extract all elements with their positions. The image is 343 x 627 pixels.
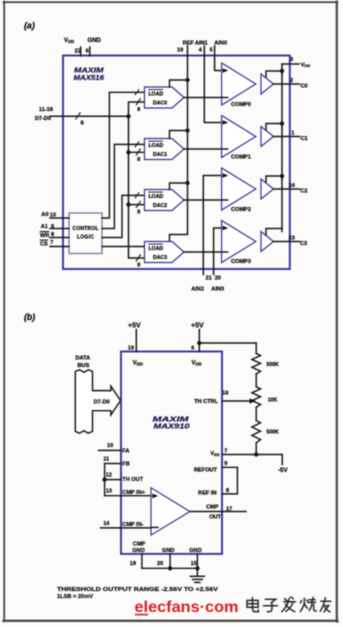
svg-text:-5V: -5V	[278, 467, 289, 474]
svg-text:CMP: CMP	[206, 505, 219, 511]
svg-text:16: 16	[222, 390, 228, 396]
junction dot rail B1	[280, 121, 284, 125]
svg-text:9: 9	[224, 461, 227, 467]
svg-text:A0: A0	[41, 212, 48, 218]
svg-text:7: 7	[50, 240, 53, 246]
char you	[320, 598, 331, 612]
junction dot bracket	[102, 477, 106, 481]
pin GND 15	[189, 548, 201, 568]
svg-text:+5V: +5V	[191, 323, 204, 330]
wire REF tap DAC2	[170, 183, 188, 190]
wire data branch DAC1	[129, 151, 145, 153]
comparator COMP1	[222, 116, 256, 161]
svg-text:4: 4	[199, 47, 203, 53]
pin VDD 22 (a)	[64, 38, 81, 56]
junction dot rail B0	[280, 69, 284, 73]
wire VDD rail	[281, 64, 283, 229]
svg-text:VDD: VDD	[192, 361, 202, 367]
wire D7-D0 data bus horizontal	[50, 113, 129, 127]
wire DAC0 output to COMP0	[184, 97, 222, 99]
wire data branch DAC2	[129, 204, 145, 206]
svg-text:VDD: VDD	[301, 62, 311, 68]
svg-text:OUT: OUT	[209, 514, 221, 520]
svg-text:5: 5	[210, 47, 213, 53]
svg-text:GND: GND	[88, 38, 102, 44]
pin TH OUT 12	[105, 472, 144, 483]
junction dot REF-DAC2 tap	[185, 181, 189, 185]
pin AIN3 20	[211, 276, 224, 293]
control logic U2	[69, 213, 102, 254]
svg-text:BUS: BUS	[78, 363, 90, 369]
svg-text:WR: WR	[40, 233, 49, 239]
svg-text:2: 2	[290, 78, 293, 84]
pin CMP IN+ 13	[105, 489, 151, 496]
pin GND 6 (a)	[86, 38, 102, 56]
load tick DAC0	[135, 90, 139, 95]
svg-text:LOAD: LOAD	[149, 92, 164, 98]
comparator COMP0	[222, 63, 256, 108]
svg-text:C1: C1	[301, 136, 308, 142]
svg-text:15: 15	[191, 561, 197, 567]
svg-text:DAC3: DAC3	[153, 255, 167, 261]
wire R3 bottom	[255, 443, 257, 455]
svg-text:7: 7	[224, 448, 227, 454]
wire control out1 to DAC0 LOAD	[102, 92, 145, 218]
svg-text:FB: FB	[122, 461, 129, 467]
svg-text:GND: GND	[132, 548, 144, 554]
svg-text:19: 19	[128, 346, 134, 352]
svg-text:11: 11	[103, 456, 109, 462]
DAC1 U4	[145, 139, 185, 160]
node D7-D0 bus pins 11-18	[35, 107, 53, 122]
svg-text:FA: FA	[122, 448, 129, 454]
wire REFOUT to REF IN loop	[222, 467, 237, 494]
pin REFOUT 9	[194, 461, 227, 474]
svg-text:D7-D0: D7-D0	[94, 399, 110, 405]
load tick DAC1	[135, 142, 139, 147]
svg-text:22: 22	[75, 49, 81, 55]
pin A0 10	[41, 212, 69, 219]
svg-text:COMP2: COMP2	[231, 207, 251, 213]
svg-text:MAX910: MAX910	[154, 424, 190, 431]
power -5V	[278, 455, 289, 475]
wire DAC1 output to COMP1	[184, 148, 222, 150]
junction dot +5V	[197, 341, 201, 345]
buffer B2	[261, 179, 274, 199]
junction dot gnd 15	[195, 566, 199, 570]
svg-text:12: 12	[106, 472, 112, 478]
watermark chinese 电子发烧友	[247, 597, 331, 612]
IC box U7 MAX910	[121, 352, 222, 554]
svg-text:LOAD: LOAD	[149, 246, 164, 252]
svg-text:REFOUT: REFOUT	[194, 468, 218, 474]
pullup loop B2	[266, 176, 282, 182]
bus slash 8 DAC0	[136, 99, 140, 113]
wire ground bus	[142, 567, 198, 569]
svg-text:LOGIC: LOGIC	[77, 235, 94, 241]
svg-text:VEE: VEE	[210, 451, 219, 457]
svg-text:A1: A1	[41, 224, 48, 230]
junction dot D7-D0	[126, 114, 130, 118]
svg-text:LOAD: LOAD	[149, 143, 164, 149]
pin C1 1	[274, 131, 308, 142]
svg-text:CMP: CMP	[133, 541, 146, 547]
pin VEE 7	[210, 448, 282, 457]
comparator U7 internal	[151, 488, 190, 535]
resistor R1 500K	[252, 354, 279, 374]
DAC3 U6	[145, 242, 185, 263]
wire R1-R2	[255, 374, 257, 387]
pin FB 11	[103, 456, 130, 467]
wire DAC3 output to COMP3	[184, 251, 222, 253]
wire DAC2 output to COMP2	[184, 199, 222, 201]
svg-text:14: 14	[103, 521, 110, 527]
svg-text:COMP0: COMP0	[231, 102, 251, 108]
wire control out3 to DAC2 LOAD	[102, 195, 145, 237]
DAC2 U5	[145, 190, 185, 211]
pin FA 10	[99, 443, 130, 454]
svg-text:C0: C0	[301, 84, 308, 90]
junction dot DAC2 data	[126, 202, 130, 206]
wire CMP OUT	[190, 511, 246, 513]
junction dot chain bottom	[254, 452, 258, 456]
svg-text:18: 18	[130, 561, 136, 567]
pin GND 20	[157, 548, 174, 568]
wire AIN0	[215, 46, 222, 71]
comparator COMP2	[222, 168, 256, 213]
svg-text:DAC2: DAC2	[153, 203, 167, 209]
char dian	[247, 598, 258, 612]
pullup loop B3	[266, 229, 282, 235]
pullup loop B1	[266, 124, 282, 130]
svg-text:3: 3	[290, 57, 293, 63]
pin AIN2 21	[191, 276, 212, 293]
svg-text:13: 13	[106, 489, 112, 495]
pin TH CTRL 16	[194, 390, 256, 405]
wire chain top	[255, 343, 257, 354]
node AIN0 pin 5	[210, 40, 227, 53]
svg-text:COMP3: COMP3	[231, 259, 251, 265]
buffer B3	[261, 232, 274, 252]
junction dot rail B2	[280, 174, 284, 178]
svg-text:AIN0: AIN0	[214, 40, 227, 46]
svg-text:CMP IN-: CMP IN-	[122, 522, 143, 528]
wire AIN2 riser	[203, 176, 221, 275]
wire AIN1	[204, 46, 221, 123]
bus slash 8 DAC2	[136, 201, 140, 215]
svg-text:11-18: 11-18	[39, 107, 53, 113]
svg-text:C3: C3	[300, 241, 307, 247]
pin WR 8	[40, 232, 69, 239]
svg-text:500K: 500K	[266, 429, 279, 435]
svg-text:elecfans·com: elecfans·com	[135, 599, 239, 616]
border frame	[3, 2, 5, 622]
power +5V pin 19	[128, 323, 141, 352]
svg-text:20: 20	[215, 276, 221, 282]
svg-text:8: 8	[137, 263, 140, 269]
junction dot gnd 20	[168, 566, 172, 570]
svg-text:CS: CS	[40, 241, 48, 247]
wire REF tap DAC0	[170, 80, 188, 87]
wire control out4 to DAC3 LOAD	[102, 246, 145, 248]
comparator COMP3	[222, 221, 256, 265]
resistor R2 10K	[252, 387, 278, 407]
node REF pin 19	[177, 40, 194, 53]
svg-text:MAXIM: MAXIM	[74, 66, 105, 75]
svg-text:DAC0: DAC0	[153, 101, 167, 107]
junction dot REF-DAC1 tap	[185, 128, 189, 132]
svg-text:MAXIM: MAXIM	[153, 414, 191, 423]
svg-text:8: 8	[81, 121, 84, 127]
buffer B0	[261, 74, 274, 94]
wire R2-R3	[255, 407, 257, 420]
load tick DAC2	[135, 193, 139, 198]
svg-text:6: 6	[191, 346, 194, 352]
svg-text:GND: GND	[189, 548, 201, 554]
pin REF IN 8	[198, 488, 229, 496]
svg-text:1LSB = 20mV: 1LSB = 20mV	[57, 594, 93, 600]
svg-text:VDD: VDD	[64, 38, 74, 44]
pin CMP OUT 17	[206, 505, 232, 521]
wire feedback bracket	[104, 464, 106, 496]
svg-text:C2: C2	[300, 189, 307, 195]
pin A1 9	[41, 224, 69, 230]
pin 3 VDD out	[282, 57, 310, 68]
wire REF tap DAC1	[170, 131, 188, 139]
pin C3 23	[274, 236, 308, 247]
bus slash 8 DAC3	[136, 255, 140, 269]
pullup loop B0	[266, 71, 282, 77]
pin C0 2	[274, 78, 308, 89]
power +5V pin 6	[191, 323, 204, 352]
svg-text:CONTROL: CONTROL	[73, 226, 99, 232]
svg-text:8: 8	[137, 209, 140, 215]
svg-text:21: 21	[206, 276, 212, 282]
wire AIN3 riser	[214, 228, 222, 275]
char fa	[282, 597, 296, 612]
pin CS 7	[40, 240, 69, 247]
svg-text:20: 20	[157, 561, 163, 567]
buffer B1	[261, 127, 274, 147]
svg-text:10: 10	[107, 443, 113, 449]
svg-text:(b): (b)	[24, 312, 35, 322]
svg-text:MAX516: MAX516	[74, 75, 105, 82]
svg-text:(a): (a)	[24, 21, 35, 31]
pin CMP IN- 14	[101, 521, 152, 528]
wire REF vertical	[170, 46, 188, 242]
junction dot REF-DAC0 tap	[185, 78, 189, 82]
resistor R3 500K	[252, 421, 279, 443]
pin CMP GND 18	[130, 541, 146, 568]
svg-text:D7-D0: D7-D0	[35, 116, 51, 122]
svg-text:6: 6	[86, 49, 89, 55]
svg-text:23: 23	[289, 236, 295, 242]
wire control out2 to DAC1 LOAD	[102, 144, 145, 228]
svg-text:REF: REF	[183, 40, 195, 46]
svg-text:LOAD: LOAD	[149, 194, 164, 200]
svg-text:THRESHOLD OUTPUT RANGE -2.56V: THRESHOLD OUTPUT RANGE -2.56V TO +2.56V	[57, 587, 218, 593]
svg-text:1: 1	[291, 131, 294, 137]
svg-text:10K: 10K	[268, 397, 278, 403]
svg-text:TH CTRL: TH CTRL	[194, 399, 219, 405]
svg-text:500K: 500K	[266, 362, 279, 368]
svg-text:CMP IN+: CMP IN+	[122, 490, 145, 496]
svg-text:AIN3: AIN3	[211, 286, 224, 292]
svg-text:8: 8	[137, 157, 140, 163]
svg-text:DAC1: DAC1	[153, 152, 167, 158]
IC box U1 MAX516	[63, 56, 290, 270]
node AIN1 pin 4	[195, 40, 208, 53]
bus slash 8 DAC1	[136, 149, 140, 163]
wire +5V to resistor chain	[199, 342, 256, 344]
svg-text:+5V: +5V	[128, 323, 141, 330]
svg-text:REF IN: REF IN	[198, 490, 216, 496]
svg-text:TH OUT: TH OUT	[122, 477, 143, 483]
watermark elecfans.com	[135, 599, 239, 616]
wire data bus vertical	[129, 102, 145, 258]
svg-text:24: 24	[289, 183, 296, 189]
svg-text:AIN2: AIN2	[191, 286, 204, 292]
svg-text:DATA: DATA	[76, 355, 91, 361]
svg-text:8: 8	[226, 488, 229, 494]
svg-text:GND: GND	[162, 548, 174, 554]
char zi	[263, 599, 277, 612]
data bus arrow symbol	[75, 355, 120, 433]
svg-text:19: 19	[177, 47, 183, 53]
junction dot DAC1 data	[126, 150, 130, 154]
svg-text:COMP1: COMP1	[231, 154, 251, 160]
ground symbol	[190, 568, 204, 582]
char shao	[300, 597, 316, 611]
DAC0 U3	[145, 87, 185, 108]
svg-text:AIN1: AIN1	[195, 40, 208, 46]
svg-text:VDD: VDD	[133, 361, 143, 367]
svg-text:8: 8	[137, 107, 140, 113]
pin C2 24	[274, 183, 308, 194]
